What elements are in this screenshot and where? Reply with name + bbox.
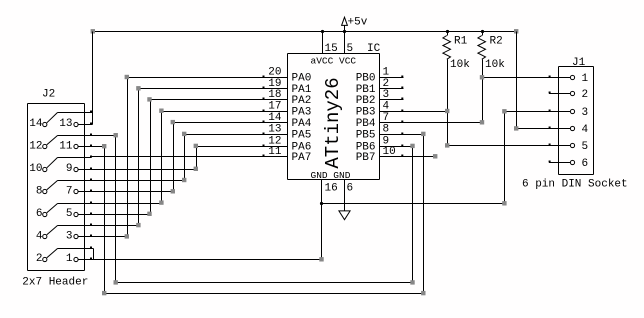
svg-text:16: 16: [325, 183, 338, 195]
wire GND to J2 pins 1,2: [78, 204, 321, 260]
wire J2 pin 9 to IC PA6: [92, 147, 263, 170]
ground symbol: [339, 211, 350, 220]
svg-text:6: 6: [582, 158, 589, 170]
svg-text:J2: J2: [42, 89, 55, 101]
svg-text:9: 9: [66, 163, 73, 175]
svg-text:10k: 10k: [450, 59, 470, 71]
wire J2 pin 12 to IC PB6: [92, 136, 413, 283]
svg-text:PA3: PA3: [292, 106, 312, 118]
svg-text:13: 13: [268, 124, 281, 136]
svg-text:GND GND: GND GND: [311, 170, 351, 181]
svg-text:3: 3: [582, 107, 589, 119]
svg-text:PB5: PB5: [356, 130, 376, 142]
svg-text:J1: J1: [572, 57, 586, 69]
svg-text:PB0: PB0: [356, 73, 376, 85]
svg-text:1: 1: [66, 253, 73, 265]
svg-text:R1: R1: [454, 36, 468, 48]
wire R2 to J1 pin 1: [483, 77, 549, 79]
svg-text:13: 13: [59, 118, 72, 130]
power symbol +5v: [342, 17, 348, 25]
connector J2 (2x7 header): [28, 104, 85, 271]
svg-text:1: 1: [582, 73, 589, 85]
svg-text:7: 7: [383, 112, 390, 124]
resistor R1 10k: [443, 36, 451, 60]
svg-text:6: 6: [347, 183, 354, 195]
svg-text:14: 14: [29, 118, 43, 130]
svg-text:5: 5: [347, 43, 354, 55]
wire GND bus IC pin16 to J1 pin 3: [322, 112, 549, 204]
svg-text:11: 11: [268, 146, 282, 158]
svg-text:4: 4: [582, 124, 589, 136]
svg-text:PA4: PA4: [292, 118, 312, 130]
svg-text:15: 15: [325, 43, 338, 55]
svg-text:8: 8: [383, 124, 390, 136]
wire +5V to J1 pin 4: [517, 32, 549, 129]
svg-text:PB7: PB7: [356, 152, 376, 164]
svg-text:PA7: PA7: [292, 152, 312, 164]
wire J2 pin 8 to IC PA5: [92, 135, 263, 181]
svg-text:2x7 Header: 2x7 Header: [22, 277, 88, 289]
wire IC PB7 stub end: [404, 156, 436, 158]
svg-text:4: 4: [36, 231, 43, 243]
svg-text:5: 5: [582, 141, 589, 153]
svg-text:3: 3: [383, 89, 390, 101]
svg-text:aVCC VCC: aVCC VCC: [311, 56, 357, 67]
resistor R2 10k: [478, 36, 486, 60]
svg-text:20: 20: [268, 67, 281, 79]
svg-text:8: 8: [36, 185, 43, 197]
svg-text:11: 11: [59, 140, 73, 152]
svg-text:PA2: PA2: [292, 95, 312, 107]
svg-text:7: 7: [66, 185, 73, 197]
wire J2 pin 10 to IC PA7: [92, 156, 263, 158]
wire R1 to J1 pin 5: [448, 145, 549, 147]
svg-text:R2: R2: [490, 36, 503, 48]
wire J2 pin 7 to IC PA4: [92, 123, 263, 192]
svg-text:4: 4: [383, 100, 390, 112]
svg-text:3: 3: [66, 231, 73, 243]
svg-text:10: 10: [29, 163, 42, 175]
svg-text:PB2: PB2: [356, 95, 376, 107]
svg-text:17: 17: [268, 100, 281, 112]
svg-text:6 pin DIN Socket: 6 pin DIN Socket: [522, 178, 628, 190]
svg-text:2: 2: [36, 253, 43, 265]
wire J2 pin 11 to IC PB5: [92, 135, 424, 294]
svg-text:+5v: +5v: [348, 17, 368, 29]
svg-text:PA0: PA0: [292, 73, 312, 85]
svg-text:5: 5: [66, 208, 73, 220]
connector J1 (6 pin DIN socket): [549, 67, 594, 175]
svg-text:2: 2: [582, 89, 589, 101]
svg-text:PB3: PB3: [356, 106, 376, 118]
svg-text:6: 6: [36, 208, 43, 220]
svg-text:10k: 10k: [485, 59, 505, 71]
IC ATtiny26: [263, 26, 404, 211]
wire IC PB4 to R2: [404, 122, 483, 124]
wire J2 pin 3 to IC PA0: [92, 78, 263, 237]
wire J2 pin 5 to IC PA2: [92, 100, 263, 215]
wire IC PB3 to R1: [404, 111, 448, 113]
svg-text:12: 12: [29, 140, 42, 152]
svg-text:ATtiny26: ATtiny26: [322, 77, 344, 168]
svg-text:PB4: PB4: [356, 118, 376, 130]
svg-text:IC: IC: [367, 43, 381, 55]
svg-text:14: 14: [268, 112, 282, 124]
svg-text:18: 18: [268, 89, 281, 101]
wire J2 pins 13,14 to +5V: [92, 32, 93, 125]
svg-text:1: 1: [383, 67, 390, 79]
svg-text:10: 10: [383, 146, 396, 158]
svg-text:PA5: PA5: [292, 130, 312, 142]
wire J2 pin 4 to IC PA1: [92, 89, 263, 226]
wire +5V rail: [93, 31, 517, 33]
wire J2 pin 6 to IC PA3: [92, 112, 263, 204]
